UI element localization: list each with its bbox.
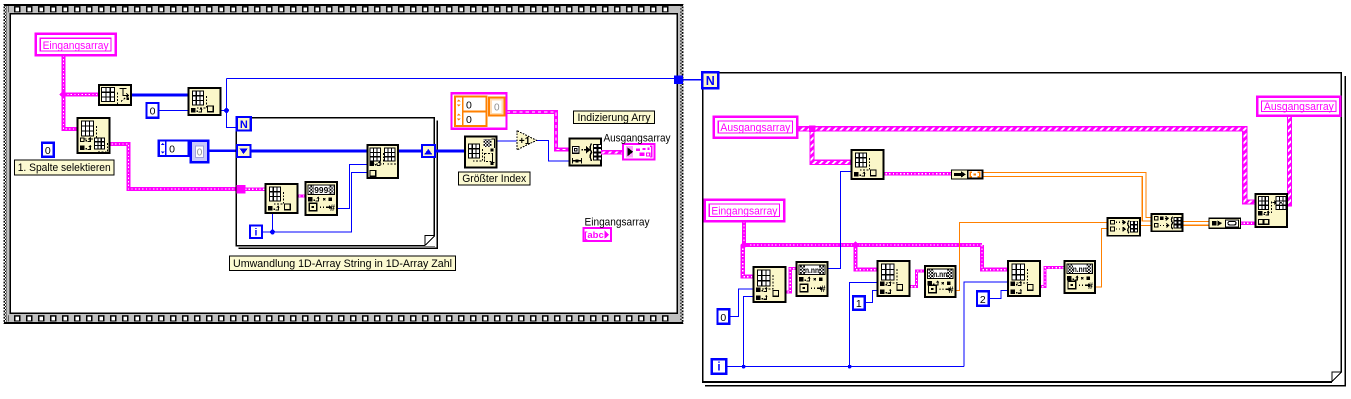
node: Transpose 2D Array — [99, 85, 131, 105]
wire: Eingangsarray chain down and across — [743, 222, 1008, 277]
node: Fract/Exp String To Number (999) — [306, 182, 338, 215]
for loop (right) frame — [703, 73, 1342, 382]
wire: shift register row (thick blue 1D array) — [251, 150, 465, 153]
constant 1 — [853, 296, 865, 309]
svg-text:0: 0 — [45, 145, 51, 157]
node: Index Array 3 — [1008, 261, 1040, 296]
svg-text:Eingangsarray: Eingangsarray — [43, 40, 109, 52]
svg-text:#: # — [330, 203, 335, 213]
wire: tunnel to right loop N terminal — [683, 79, 703, 81]
wire: Ausgangsarray 2D rope long run to replace node — [798, 129, 1256, 202]
for loop (right) shadow — [705, 76, 1345, 386]
node: Interleave/Build Array with element inputs — [1152, 214, 1183, 231]
wire: bullet to replace array subset (string chain) — [1240, 222, 1256, 226]
svg-text:n.nn: n.nn — [805, 265, 819, 275]
svg-text:Ausgangsarray: Ausgangsarray — [720, 122, 790, 134]
junction dot on i wire — [270, 230, 275, 235]
node: increment +1 — [517, 131, 537, 150]
node: Index Array (get row) "1. Spalte selektieren" — [78, 118, 110, 153]
wire: Eingangsarray control down to index node (2D string chain) — [64, 56, 79, 130]
node: Array Max & Min "Groesster Index" — [465, 137, 497, 168]
wire: string-to-number 1 up to top index array index input — [827, 172, 853, 269]
label: Ausgangsarray control (right loop) — [714, 117, 798, 138]
svg-text:0: 0 — [720, 312, 726, 324]
label: Umwandlung 1D-Array String in 1D-Array Zahl — [230, 256, 456, 271]
wire: iteration i to index array 2 — [850, 283, 878, 367]
N terminal of inner for loop — [237, 117, 251, 131]
tunnel: blue output tunnel on left structure border — [674, 76, 683, 84]
constant 2 — [977, 291, 989, 305]
svg-text:N: N — [706, 74, 715, 88]
label: Indizierung Arry — [574, 111, 655, 124]
wire: array max min to +1 — [497, 140, 517, 142]
while loop checkered left edge — [4, 4, 7, 324]
junction dot index-node output — [224, 108, 229, 113]
node: Index Array 1 (bottom row) — [754, 267, 786, 302]
inner for loop shadow — [239, 121, 438, 249]
svg-text:+1: +1 — [519, 136, 531, 147]
node: Number To Fractional String 3 — [1065, 261, 1096, 293]
while loop inner area — [10, 14, 677, 313]
svg-text:0: 0 — [150, 106, 156, 118]
wire: replace node output rope up to Ausgangsarray indicator — [1287, 117, 1290, 204]
cluster constant with two numeric fields — [452, 93, 507, 129]
node: Number To Fractional String 1 — [797, 262, 828, 296]
svg-text:#: # — [948, 285, 953, 295]
wire: number 3 orange to build node — [1094, 229, 1108, 287]
wire: string-to-number output to replace array subset inputs — [336, 165, 368, 209]
wire: 2D orange double from conversion bullet to node — [984, 173, 1152, 221]
node: conversion bullet string to number array — [952, 170, 984, 179]
svg-text:Ausgangsarray: Ausgangsarray — [604, 132, 671, 144]
svg-text:0: 0 — [466, 114, 472, 126]
iteration terminal i of right loop — [712, 359, 726, 373]
wire: iteration i to index array 1 second input — [744, 297, 754, 367]
while loop checkered right edge — [680, 4, 683, 324]
wire: index array 2 to number-to-string 2 — [908, 271, 926, 287]
wire: index array 1 to number-to-string 1 — [784, 269, 797, 292]
wire: constant 0 to index array 1 — [729, 289, 754, 317]
while loop top border line — [4, 4, 683, 6]
wire: index array 3 to number-to-string 3 — [1039, 268, 1065, 287]
wire: cluster constant to array subset node (pink dashed) — [507, 112, 570, 150]
for loop (right) folded corner — [1332, 372, 1343, 383]
while loop film squares bottom — [8, 315, 674, 322]
wire: +1 output to array subset index input — [537, 140, 570, 161]
svg-text:#: # — [820, 284, 825, 294]
svg-text:Ausgangsarray: Ausgangsarray — [1264, 101, 1334, 113]
wire: index node output to N terminal and long run to right loop tunnel — [220, 79, 675, 128]
svg-text:N: N — [240, 119, 248, 131]
constant 0 bottom — [718, 309, 730, 323]
wire: iteration terminal main run — [726, 366, 964, 368]
svg-text:n.nn: n.nn — [933, 269, 947, 279]
wire: build node to interleave node — [1141, 225, 1152, 227]
svg-text:Größter Index: Größter Index — [462, 173, 526, 185]
numeric control with increment arrows — [159, 141, 189, 156]
wire: row selection output chain to loop tunnel — [108, 144, 238, 189]
svg-text:n.nn: n.nn — [1073, 264, 1087, 274]
svg-text:#: # — [1088, 281, 1093, 291]
svg-text:0: 0 — [169, 144, 175, 156]
N terminal of right for loop — [702, 72, 718, 88]
left shift register terminal — [237, 145, 251, 157]
wire: constant 0 to index node index input — [158, 110, 189, 112]
label: Eingangsarray control (left) — [36, 34, 116, 56]
wire: iteration terminal i to nodes — [262, 173, 368, 233]
svg-text:1: 1 — [856, 298, 862, 310]
node: Index Array (row from 2D) top — [852, 150, 884, 179]
inner for loop frame — [236, 118, 434, 246]
node: Index Array top left — [189, 88, 221, 115]
wire: branch to Transpose 2D Array — [64, 92, 100, 96]
wire: index array element to string-to-number — [292, 194, 306, 197]
svg-text:i: i — [717, 362, 720, 374]
wire: numeric control into left shift register — [208, 150, 237, 152]
svg-text:Eingangsarray: Eingangsarray — [585, 217, 650, 229]
wire: iteration i to index array 3 — [964, 282, 1008, 367]
label: Groesster Index — [459, 172, 531, 185]
label: Eingangsarray control (right loop) — [705, 200, 785, 222]
wire: constant 2 to index array 3 — [989, 290, 1009, 298]
node: Build Array two inputs — [1108, 218, 1141, 236]
label: Ausgangsarray indicator (top right) — [1257, 97, 1340, 116]
wire: constant 1 to index array 2 — [865, 291, 878, 303]
magenta tunnel on inner loop border — [237, 185, 246, 194]
node: Array Subset "Indizierung Arry" — [570, 139, 602, 166]
junction diamonds on Eingangsarray chain — [740, 241, 748, 249]
svg-text:0: 0 — [466, 100, 472, 112]
wire: interleave output double orange to byte-to-string bullet — [1183, 222, 1210, 226]
svg-text:i: i — [255, 227, 258, 239]
numeric constant lavender (grayed) — [191, 141, 208, 162]
node: Number To Fractional String 2 — [925, 266, 956, 297]
wire: number 2 orange to build node — [954, 223, 1108, 291]
right shift register terminal — [422, 145, 435, 157]
while loop bottom border line — [4, 322, 683, 324]
svg-text:0: 0 — [494, 103, 500, 114]
junction dots on i wire — [742, 365, 746, 369]
wire: transpose output 2D numeric array to index node (thick blue) — [130, 94, 189, 97]
inner for loop folded corner — [425, 236, 436, 247]
junction on Eingangsarray wire — [59, 90, 67, 98]
node: Replace Array Subset / build inside loop — [368, 145, 399, 178]
wire: rope branch down to index array — [812, 129, 852, 163]
constant 0 (column index) — [147, 103, 159, 118]
svg-text:2: 2 — [980, 294, 986, 306]
constant 0 (row index) — [42, 143, 54, 157]
while loop frame (left structure) border — [5, 5, 682, 323]
svg-text:Eingangsarray: Eingangsarray — [711, 205, 777, 217]
svg-text:0: 0 — [197, 147, 203, 158]
iteration terminal i of inner loop — [250, 226, 262, 238]
wire: tunnel chain to index array inside loop — [245, 187, 266, 191]
label: 1. Spalte selektieren — [15, 160, 115, 175]
control terminal: Eingangsarray string (abc) — [584, 228, 612, 241]
node: Replace Array Subset — [1256, 194, 1288, 227]
svg-text:Umwandlung 1D-Array String in: Umwandlung 1D-Array String in 1D-Array Z… — [233, 258, 452, 270]
wire: array subset output to Ausgangsarray indicator — [601, 150, 623, 154]
node: Index Array inside inner loop — [266, 184, 298, 213]
svg-text:Indizierung Arry: Indizierung Arry — [578, 112, 651, 124]
indicator: Ausgangsarray (1D array out) — [623, 144, 654, 159]
while loop film squares top — [8, 6, 674, 13]
wire: top index array output chain to conversion bullet — [882, 172, 952, 176]
svg-text:1. Spalte selektieren: 1. Spalte selektieren — [18, 162, 111, 174]
svg-text:[abc: [abc — [584, 230, 604, 241]
node: byte array to string bullet — [1209, 218, 1241, 228]
svg-text:999: 999 — [314, 185, 328, 195]
junction on rope — [809, 126, 816, 133]
node: Index Array 2 — [878, 261, 910, 296]
